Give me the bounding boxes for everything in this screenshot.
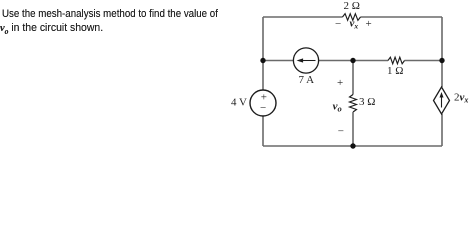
voltage source 4V bbox=[250, 90, 276, 116]
svg-text:+: + bbox=[337, 77, 343, 89]
node A junction dot bbox=[260, 58, 265, 63]
svg-text:−: − bbox=[338, 125, 344, 137]
wire: bottom rail bbox=[263, 145, 442, 147]
node C junction dot bbox=[439, 58, 444, 63]
resistor 3Ω (middle branch) bbox=[350, 95, 357, 113]
wire: right vertical node C to diamond bbox=[441, 61, 443, 88]
svg-text:1 Ω: 1 Ω bbox=[387, 65, 403, 77]
current source 7A bbox=[293, 48, 318, 73]
dependent current source 2vx (diamond) bbox=[434, 87, 450, 114]
arrow of 2vx source (pointing up) bbox=[441, 96, 443, 108]
resistor 1Ω (middle rail) bbox=[388, 57, 405, 64]
wire: middle rail node B to 1Ω bbox=[353, 60, 388, 62]
wire: middle rail left of 7A bbox=[263, 60, 293, 62]
resistor 2Ω (top) bbox=[343, 14, 361, 21]
svg-text:+: + bbox=[366, 18, 372, 30]
wire: middle rail 7A to node B bbox=[319, 60, 353, 62]
svg-text:−: − bbox=[260, 102, 266, 114]
wire: left vertical lower (4V source to bottom rail) bbox=[262, 116, 264, 146]
svg-text:−: − bbox=[335, 18, 341, 30]
wire: middle rail 1Ω to node C bbox=[405, 60, 443, 62]
problem statement text bbox=[2, 8, 246, 22]
wire: top rail left segment bbox=[263, 16, 343, 18]
wire: middle branch lower (3Ω to bottom rail) bbox=[352, 112, 354, 146]
svg-text:vo: vo bbox=[333, 100, 342, 113]
wire: right vertical diamond to bottom rail bbox=[441, 114, 443, 146]
svg-text:2vx: 2vx bbox=[454, 91, 468, 104]
wire: left vertical upper (node A to 4V source) bbox=[262, 17, 264, 90]
svg-text:7 A: 7 A bbox=[299, 74, 315, 86]
svg-text:3 Ω: 3 Ω bbox=[359, 96, 375, 108]
svg-text:2 Ω: 2 Ω bbox=[344, 0, 360, 12]
arrow of 7A source (pointing left) bbox=[302, 60, 316, 62]
wire: top rail right segment bbox=[361, 16, 443, 18]
wire: middle branch upper (node B down to 3Ω) bbox=[352, 61, 354, 95]
node B junction dot bbox=[350, 58, 355, 63]
node D junction dot (bottom) bbox=[350, 143, 355, 148]
wire: right vertical upper (top rail to node C) bbox=[441, 17, 443, 61]
svg-text:4 V: 4 V bbox=[231, 97, 247, 109]
